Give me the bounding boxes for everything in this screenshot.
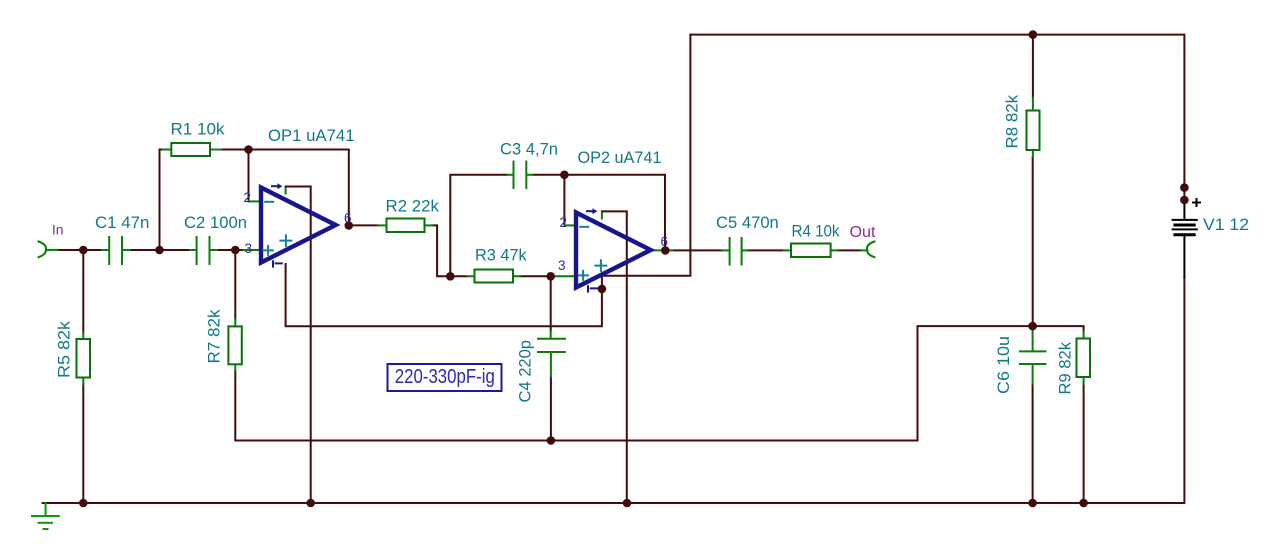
resistor R2 — [378, 219, 432, 233]
resistor R9 — [1077, 332, 1091, 385]
capacitor C4 — [538, 331, 565, 377]
svg-text:OP1 uA741: OP1 uA741 — [268, 126, 355, 145]
svg-text:C6 10u: C6 10u — [994, 336, 1013, 394]
junction C4 bottom node — [547, 436, 556, 445]
resistor R4 — [784, 244, 838, 258]
svg-text:R1 10k: R1 10k — [171, 120, 225, 139]
svg-text:V1 12: V1 12 — [1203, 215, 1249, 234]
svg-text:220-330pF-ig: 220-330pF-ig — [395, 366, 495, 388]
wire OP2 output to C5 and R4 — [672, 249, 861, 251]
connector Out — [867, 242, 875, 258]
wire OP1 output to R2 — [346, 225, 449, 276]
svg-text:R8 82k: R8 82k — [1003, 94, 1022, 148]
svg-text:OP2 uA741: OP2 uA741 — [578, 148, 662, 167]
svg-text:R5 82k: R5 82k — [55, 320, 74, 378]
wire C3 loop — [450, 175, 665, 276]
capacitor C1 — [102, 237, 130, 264]
wire ground rail — [43, 277, 1185, 503]
junction battery plus upper — [1180, 183, 1189, 192]
junction R9 on ground rail — [1079, 499, 1088, 508]
wire mid rail R7 to R9 — [235, 326, 1083, 440]
capacitor C3 — [507, 162, 533, 189]
wire Out stub — [861, 249, 868, 251]
wire pin2 stub OP2 — [564, 224, 576, 226]
junction OP1 power loop on ground rail — [306, 499, 315, 508]
junction C6 on ground rail — [1028, 499, 1037, 508]
junction R2 R3 C3 node — [446, 272, 455, 281]
svg-text:C1 47n: C1 47n — [95, 213, 149, 232]
junction R8 C6 R9 node — [1028, 322, 1037, 331]
wire R5 branch — [82, 250, 84, 503]
wire C4 branch — [550, 276, 552, 440]
wire top supply rail — [690, 35, 1184, 200]
junction R8 tap on supply rail — [1029, 30, 1038, 39]
svg-text:C3 4,7n: C3 4,7n — [500, 140, 558, 159]
junction OP2 power loop on ground rail — [623, 499, 632, 508]
junction C3 to OP2 pin2 node — [560, 171, 569, 180]
wire R8 branch — [1032, 35, 1034, 327]
svg-text:3: 3 — [245, 241, 253, 256]
svg-text:C5 470n: C5 470n — [716, 213, 779, 232]
svg-text:3: 3 — [558, 258, 566, 273]
connector In — [39, 242, 47, 258]
junction OP2 pin4 power node — [598, 285, 607, 294]
svg-text:R3 47k: R3 47k — [475, 246, 527, 265]
resistor R7 — [228, 250, 241, 371]
capacitor C6 — [1020, 326, 1046, 384]
wire pin3 stub OP1 — [243, 249, 259, 251]
svg-text:R4 10k: R4 10k — [792, 222, 840, 241]
ground — [32, 503, 59, 529]
wire C2 to OP1 pin3 — [217, 249, 243, 251]
svg-text:Out: Out — [850, 224, 877, 241]
svg-text:R7 82k: R7 82k — [205, 309, 224, 363]
junction R5 tap on input line — [79, 246, 88, 255]
wire OP1 pin7 loop to ground — [286, 187, 311, 504]
op-amp U2 OP2 triangle — [576, 208, 651, 291]
wire In to C1 — [58, 249, 103, 251]
svg-text:C4 220p: C4 220p — [516, 340, 535, 403]
junction R5 on ground rail — [79, 499, 88, 508]
svg-text:R9 82k: R9 82k — [1056, 342, 1075, 395]
svg-text:6: 6 — [661, 234, 669, 249]
svg-text:6: 6 — [344, 211, 352, 226]
svg-text:In: In — [52, 222, 64, 238]
wire pin6 stub OP2 — [652, 249, 672, 251]
wire OP1 pin4 to OP2 pin4 — [286, 35, 691, 327]
junction OP2 pin6 output — [661, 246, 670, 255]
op-amp U1 OP1 triangle — [261, 183, 336, 266]
svg-text:R2 22k: R2 22k — [386, 197, 440, 216]
resistor R1 — [163, 143, 221, 156]
svg-text:2: 2 — [244, 190, 252, 205]
wire R9 to ground — [1083, 384, 1085, 503]
wire R3 segments — [450, 275, 552, 277]
svg-text:2: 2 — [560, 215, 568, 230]
capacitor C5 — [722, 238, 748, 265]
battery V1 — [1173, 199, 1200, 277]
wire In stub — [46, 249, 58, 251]
wire R1 feedback branch — [160, 150, 349, 251]
svg-text:C2 100n: C2 100n — [184, 213, 247, 232]
wire pin2 stub OP1 — [249, 200, 260, 202]
junction R7 tap at OP1 pin3 — [231, 246, 240, 255]
wire C6 below — [1032, 384, 1034, 503]
resistor R5 — [77, 332, 91, 384]
resistor R3 — [467, 270, 520, 283]
wire pin3 stub OP2 — [552, 275, 576, 277]
junction R3 C4 OP2 pin3 node — [546, 272, 555, 281]
junction battery plus lower — [1180, 196, 1189, 205]
capacitor C2 — [190, 237, 217, 264]
note box 220-330pF-ig — [388, 364, 502, 391]
junction R1 tap on input line — [155, 246, 164, 255]
junction OP1 pin6 output — [345, 221, 354, 230]
wire C1 to C2 — [130, 249, 190, 251]
wire OP2 pin7 loop to ground — [602, 211, 627, 503]
junction R1 right to OP1 pin2 — [244, 145, 253, 154]
resistor R8 — [1027, 98, 1040, 157]
